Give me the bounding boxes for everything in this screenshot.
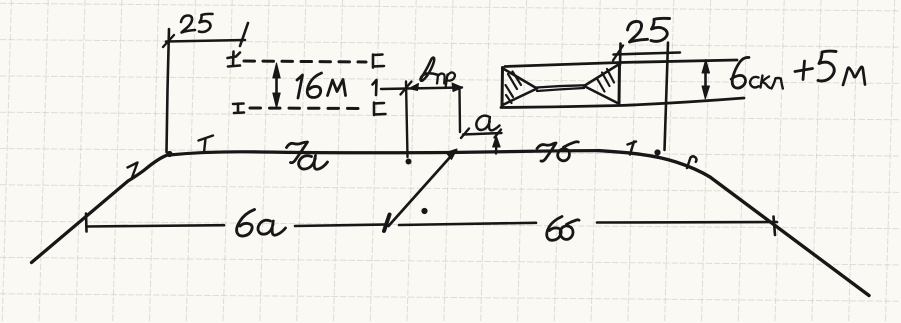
label m [843,67,865,85]
left slope tick [128,163,138,178]
dim 25 left: extension line [167,29,170,152]
label 25 right: digit 5 [651,18,670,41]
diagonal divider line with arrow [389,151,457,227]
sleeper symbol: left triangle [503,69,538,106]
dim 25 right: right tick + long extension [665,43,669,151]
label 6a: digit 6 [237,210,255,236]
Vskl arrowhead up [702,60,710,74]
crest tick T [199,136,214,153]
a up-arrow to crest [495,141,498,154]
l_pr right extension down [458,88,461,132]
dim 25 left: left tick [163,35,174,47]
sleeper symbol: left edge [501,68,505,107]
label l_pr: p (Cyrillic pe) [437,74,445,84]
label 16M: digit 1 [297,75,303,98]
dim 6b right tick [774,217,776,236]
label 16M: digit 6 [307,73,321,98]
16M bottom dashed line [250,107,365,111]
dim a right tick [495,130,502,138]
16M bottom-right bracket [374,103,386,116]
dim a left tick [461,129,469,139]
dim 25 left: dimension line [166,40,245,42]
16M vertical arrow shaft [275,68,278,104]
label 25 left: digit 2 [181,16,195,33]
label 5 [818,51,836,81]
dot above 6a right [421,208,427,214]
right slope [598,151,869,296]
16M top-right bracket [373,55,384,68]
label l_pr: r (Cyrillic er) [446,72,456,88]
dim 6a line [87,225,388,227]
l_pr tick at crossing [401,82,412,95]
junction bold tick [384,215,390,232]
label 7b: digit 7 [537,143,556,161]
crest right tick [628,142,637,155]
dim 25 right: left tick [613,46,623,61]
label V (Cyrillic ve cursive) [731,57,749,88]
16M arrowhead up [273,63,280,78]
label 6a: letter a [258,220,286,235]
dim 25 right: left extension to box [619,44,622,66]
dim a line [463,133,502,135]
label a [476,116,499,131]
l_pr tick (1-shaped) [373,80,377,95]
label 6b: letter b [560,220,579,240]
sleeper symbol: bottom long line [501,98,744,108]
label plus [795,61,813,80]
label skl subscript [750,77,758,88]
sleeper symbol: right edge [618,63,622,105]
16M arrowhead down [273,93,280,108]
Vskl arrow shaft [704,64,707,95]
16M top dashed line [244,61,366,62]
embankment crest line [169,151,598,155]
label 16M: letter M [328,80,346,96]
label 25 left: digit 5 [199,14,213,32]
l_pr left extension line with dot [406,82,408,158]
left slope [32,155,170,263]
Vskl arrowhead down [702,86,710,99]
dim 6b line [399,222,777,225]
dim 25 right: dimension line [614,53,681,55]
right slope tick [687,156,696,168]
l_pr left arrow [409,84,419,91]
dim 6a left tick [85,214,88,232]
crest left dot [166,151,172,157]
l_pr dimension line [381,88,462,90]
sleeper symbol: right triangle [584,65,619,104]
sleeper symbol: middle band [537,85,585,91]
label 7a: letter a [299,156,328,170]
16M top-left bracket [228,52,241,67]
16M bottom-left bracket [233,104,244,114]
sleeper symbol: top long line [505,60,737,67]
label 7a: digit 7 [287,142,308,163]
label 25 right: digit 2 [628,21,648,42]
label l_pr: script ell [421,58,437,81]
label 6b: digit 6 [547,217,562,241]
dim 25 left: right tick [240,23,248,46]
sleeper hatch left [506,72,522,104]
sleeper hatch right [597,69,614,92]
l_pr right arrow [452,83,463,92]
label 7b: letter b (Cyrillic be) [558,142,579,161]
